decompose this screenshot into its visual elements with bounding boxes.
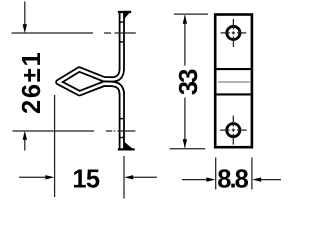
svg-text:26±1: 26±1 bbox=[18, 51, 46, 114]
dimension 8.8 right arrow bbox=[261, 179, 282, 181]
bend tick 1 bbox=[119, 21, 124, 23]
bend tick 3 bbox=[119, 118, 124, 120]
top centerline / extension line bbox=[12, 32, 136, 34]
dimension 8.8 left extension line bbox=[215, 158, 217, 190]
bottom hook barb (filled triangle) bbox=[124, 141, 135, 150]
clip spring profile (outer black outline) bbox=[58, 13, 122, 149]
dimension 8.8 left arrow bbox=[182, 179, 208, 181]
plate thin middle line bbox=[218, 81, 250, 83]
top hole bbox=[227, 26, 240, 39]
bottom hole crosshair bbox=[220, 116, 247, 145]
dimension 33 bottom arrow bbox=[183, 139, 187, 148]
dimension 33 top extension line bbox=[174, 13, 208, 15]
clip spring profile (upper white core) bbox=[58, 13, 122, 83]
dimension 15 left extension line bbox=[54, 95, 56, 197]
bottom centerline / extension line bbox=[13, 130, 136, 132]
dimension 26±1 top arrow bbox=[24, 2, 26, 27]
bend tick 4 bbox=[119, 137, 124, 139]
dimension 15 left arrow bbox=[19, 176, 48, 178]
dimension 26±1 bottom arrow bbox=[24, 138, 26, 151]
plate outline bbox=[215, 15, 252, 148]
svg-text:15: 15 bbox=[72, 166, 100, 194]
top hole crosshair bbox=[221, 19, 247, 47]
plate groove line upper bbox=[217, 68, 251, 70]
top hook barb (filled triangle) bbox=[124, 11, 132, 20]
dimension 33 bottom extension line bbox=[170, 148, 206, 150]
top hook edge bbox=[118, 11, 131, 13]
bottom hook edge bbox=[118, 148, 135, 150]
dimension 15 right extension line bbox=[123, 156, 125, 199]
bend tick 2 bbox=[119, 41, 124, 43]
dimension text 33 (white backing) bbox=[177, 66, 198, 98]
clip spring profile (lower waist black overlay) bbox=[98, 84, 122, 95]
bottom hole bbox=[227, 124, 240, 137]
dimension 15 right arrow bbox=[131, 176, 157, 178]
dimension 33 top arrow bbox=[183, 15, 187, 24]
clip spring profile (lower white core) bbox=[58, 82, 122, 149]
dimension 8.8 right extension line bbox=[251, 158, 253, 190]
svg-text:33: 33 bbox=[175, 69, 203, 95]
dimension 33 line bbox=[184, 16, 186, 148]
plate groove line lower bbox=[217, 93, 251, 95]
svg-text:8.8: 8.8 bbox=[217, 166, 248, 194]
